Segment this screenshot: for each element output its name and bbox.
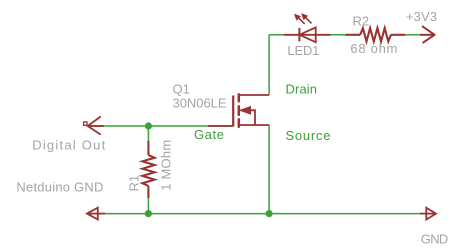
svg-text:30N06LE: 30N06LE [173,96,227,111]
wire bottom GND rail [87,213,436,215]
svg-text:Gate: Gate [194,127,224,142]
wire drain vertical [268,35,270,95]
resistor R1 [142,141,154,198]
transistor Q1 30N06LE n-channel MOSFET [208,93,269,128]
wire source vertical [268,125,270,214]
ground triangle right (GND) [420,208,436,220]
svg-text:Digital Out: Digital Out [32,137,105,152]
svg-text:Netduino GND: Netduino GND [16,180,103,195]
junction node source/GND rail [266,210,273,217]
svg-text:Drain: Drain [286,82,318,97]
svg-text:68 ohm: 68 ohm [350,41,397,56]
svg-text:1 MOhm: 1 MOhm [158,140,173,191]
svg-text:R1: R1 [127,175,142,192]
wire net +3V3 top rail [269,34,346,36]
svg-text:R2: R2 [353,14,370,29]
ground triangle left (Netduino GND) [87,208,105,220]
svg-text:Source: Source [286,128,331,143]
wire gate net horizontal [88,125,233,127]
svg-text:LED1: LED1 [287,43,319,58]
svg-text:GND: GND [421,231,449,246]
junction node R1/GND rail [145,210,152,217]
svg-text:+3V3: +3V3 [406,9,437,24]
supply arrow +3V3 [420,26,435,43]
wire R1 vertical net [147,126,149,142]
pin arrow Digital Out [84,117,104,135]
resistor R2 [346,28,405,41]
LED LED1 [284,14,331,42]
junction node gate/R1 [145,122,152,129]
svg-text:Q1: Q1 [173,82,190,97]
